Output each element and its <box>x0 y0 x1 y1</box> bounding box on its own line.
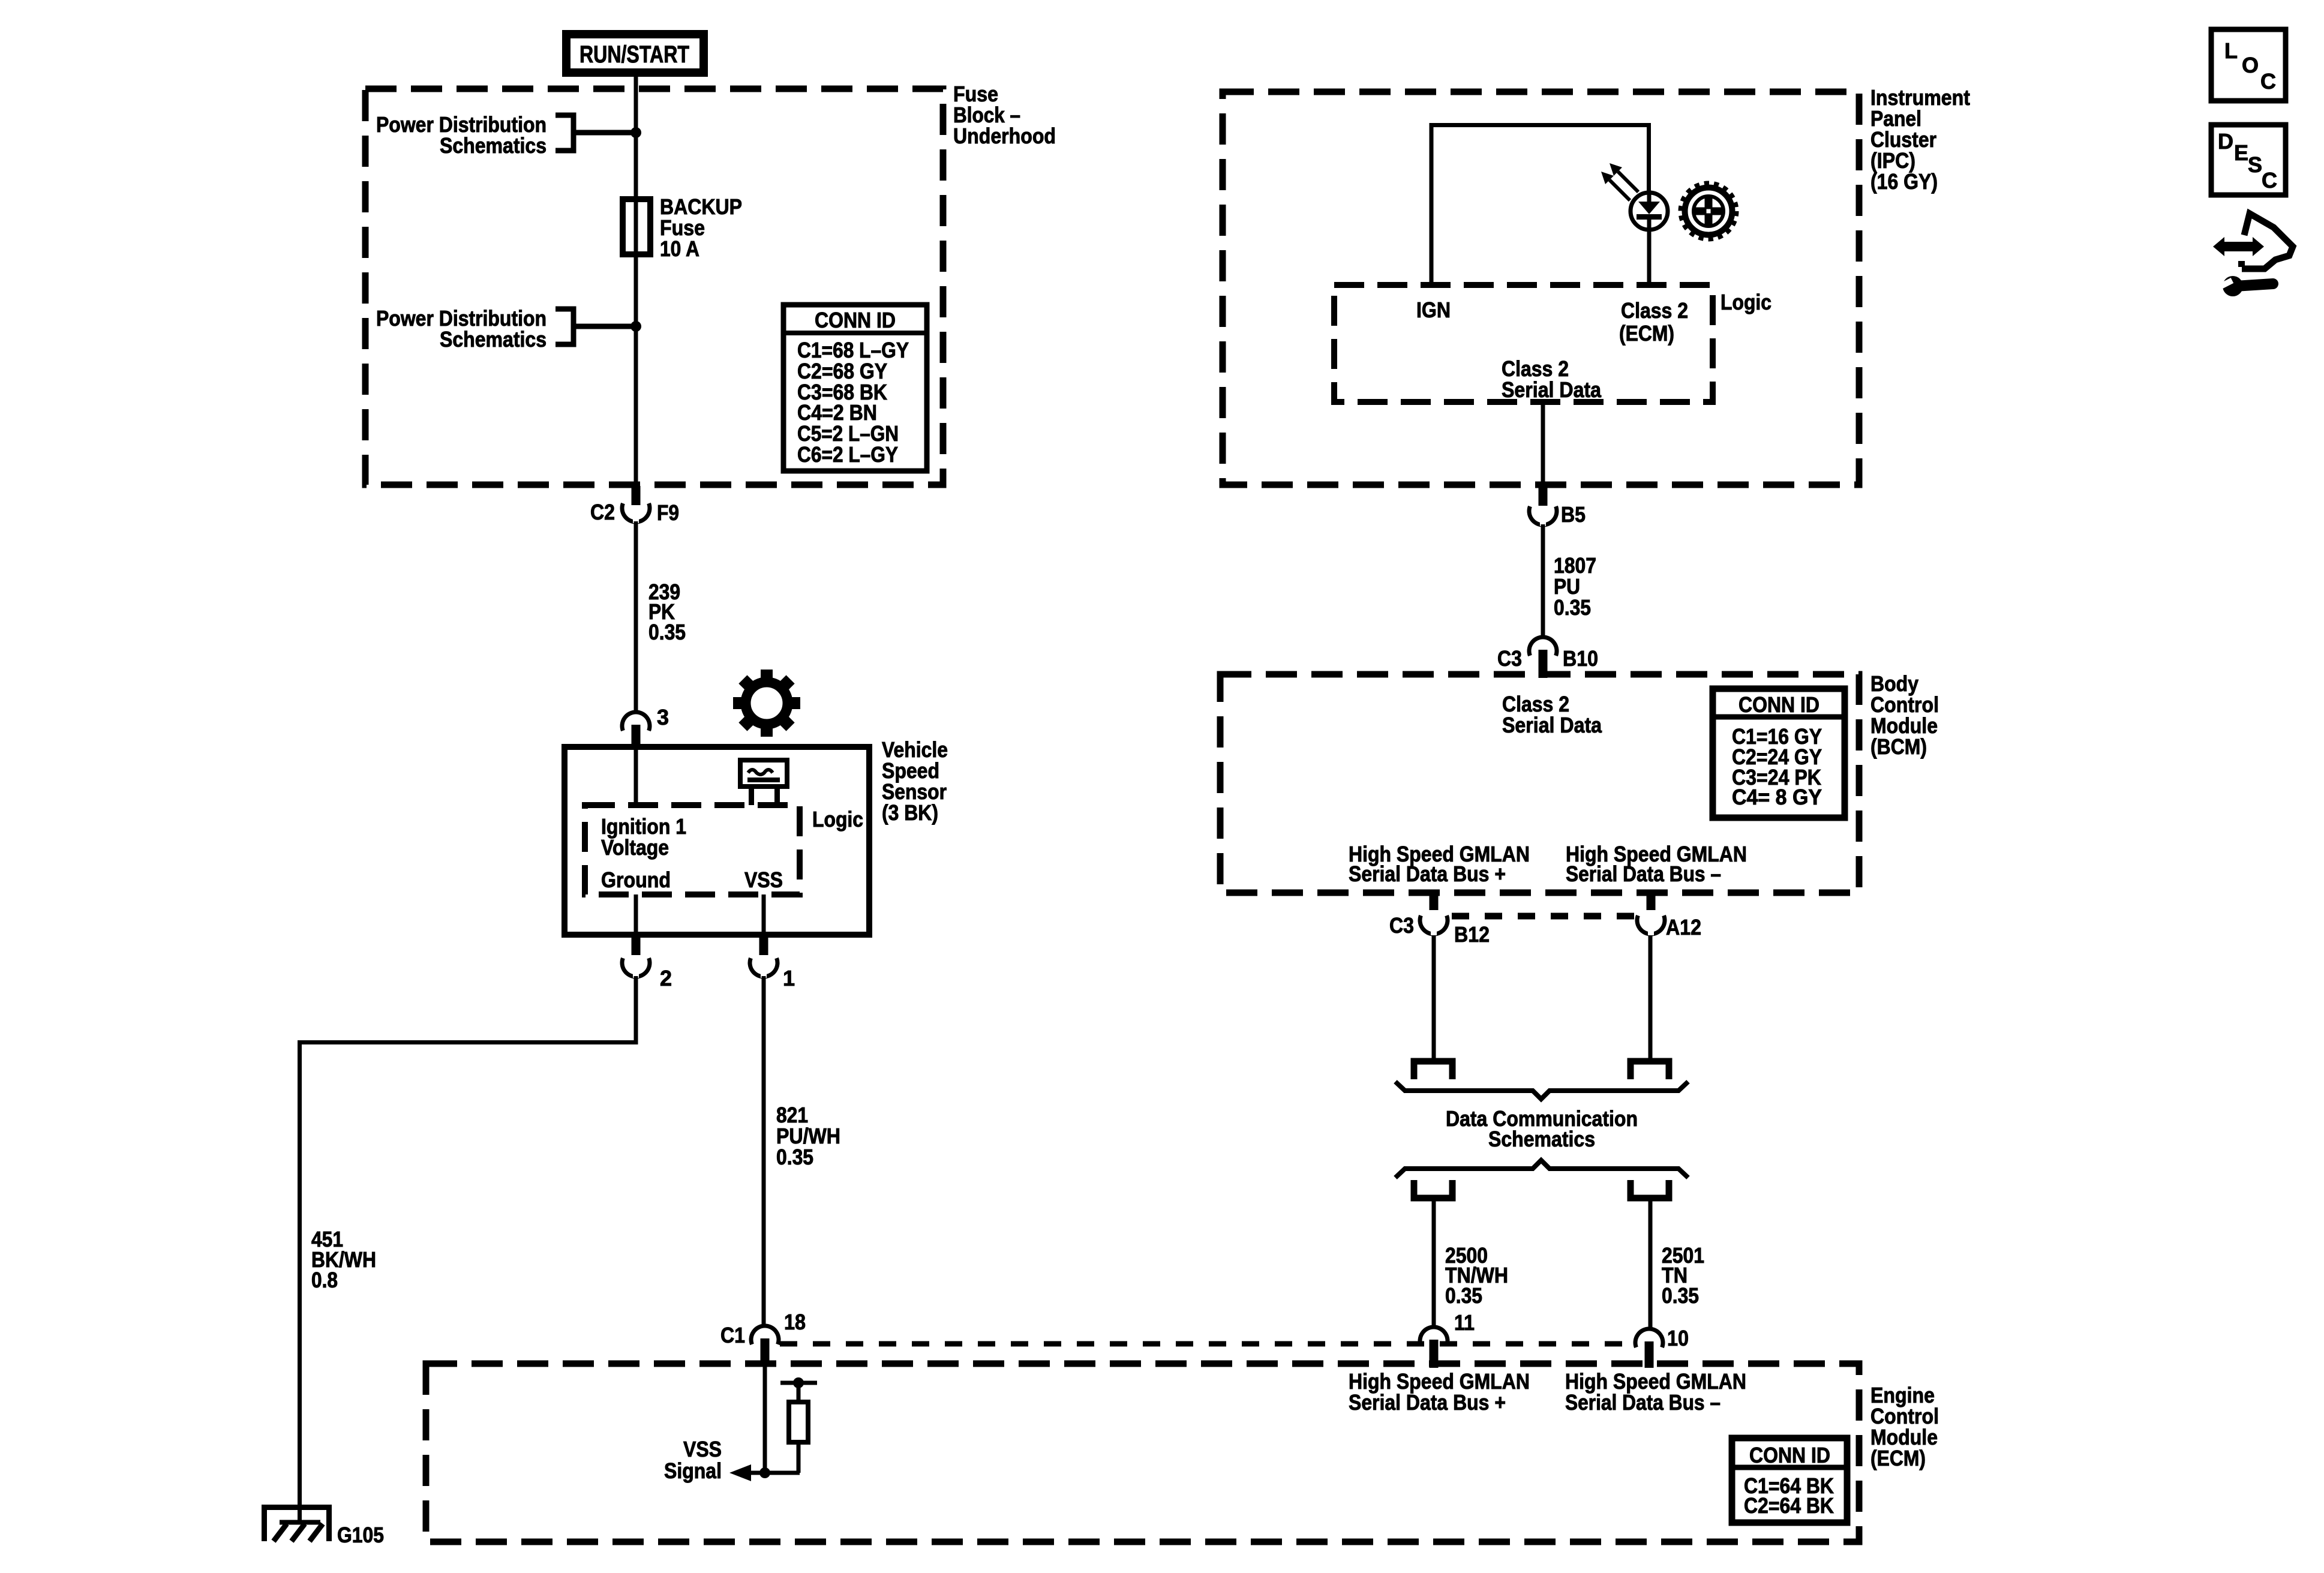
power feed box RUN/START <box>566 34 704 73</box>
harness dotted line C1 to ECM pins <box>780 1341 1635 1347</box>
brace lower <box>1395 1160 1688 1178</box>
junction node 1 <box>630 127 641 138</box>
label Logic (sensor) <box>812 807 863 831</box>
svg-text:C1: C1 <box>720 1323 745 1347</box>
body control module dashed box <box>1220 674 1859 893</box>
label High Speed GMLAN Serial Data Bus - (BCM) <box>1566 842 1747 886</box>
wire IGN loop top <box>1431 125 1649 286</box>
label IGN <box>1416 298 1451 322</box>
LED indicator <box>1631 193 1668 230</box>
pullup resistor <box>780 1377 817 1473</box>
terminal block bottom right <box>1631 1180 1669 1198</box>
label C2 <box>590 500 615 524</box>
IPC logic dashed box <box>1334 285 1713 402</box>
svg-text:B10: B10 <box>1563 646 1598 671</box>
wire VSS signal vertical <box>763 1362 767 1473</box>
label Fuse Block - Underhood <box>953 82 1056 148</box>
svg-text:S: S <box>2248 152 2262 177</box>
svg-text:Schematics: Schematics <box>440 327 547 352</box>
svg-text:0.35: 0.35 <box>1662 1283 1699 1308</box>
label Class 2 Serial Data (BCM) <box>1502 692 1602 737</box>
svg-text:C4= 8 GY: C4= 8 GY <box>1732 785 1822 809</box>
wire pin3 into sensor <box>634 749 638 805</box>
label BACKUP Fuse 10 A <box>660 194 742 261</box>
label B10 <box>1563 646 1598 671</box>
label 2500 TN/WH 0.35 lower <box>1445 1243 1508 1308</box>
svg-text:A12: A12 <box>1666 915 1701 939</box>
sensor logic dashed box <box>585 805 800 894</box>
label Engine Control Module (ECM) <box>1870 1383 1939 1470</box>
label Power Distribution Schematics 2 <box>376 306 547 352</box>
label VSS <box>744 867 783 892</box>
svg-text:VSS: VSS <box>683 1437 722 1461</box>
label Instrument Panel Cluster (IPC) (16 GY) <box>1870 85 1970 194</box>
VSS signal arrow <box>729 1464 800 1481</box>
connector C3 pin A12 <box>1637 891 1665 935</box>
label G105 <box>337 1523 384 1547</box>
wire class2 lower <box>1647 229 1652 285</box>
svg-text:1: 1 <box>783 966 795 990</box>
brace upper <box>1395 1082 1688 1099</box>
label Data Communication Schematics <box>1446 1106 1638 1151</box>
svg-text:Serial Data Bus +: Serial Data Bus + <box>1349 1390 1506 1415</box>
gear icon vehicle speed sensor <box>733 670 800 737</box>
wire 2500 upper <box>1432 934 1436 1058</box>
connector pin 2 <box>622 935 650 978</box>
connector pin 3 <box>622 712 650 749</box>
label Class 2 Serial Data (IPC) <box>1502 356 1602 402</box>
svg-text:C3: C3 <box>1497 646 1522 671</box>
label 2 <box>660 966 672 990</box>
svg-text:C3: C3 <box>1389 913 1414 938</box>
label B5 <box>1561 502 1586 527</box>
svg-text:E: E <box>2234 140 2248 165</box>
label C3 (B12) <box>1389 913 1414 938</box>
svg-text:CONN ID: CONN ID <box>1749 1443 1830 1467</box>
wire RUN/START to C2 <box>634 73 638 487</box>
svg-text:Underhood: Underhood <box>953 124 1056 148</box>
svg-text:(ECM): (ECM) <box>1619 321 1674 346</box>
dashed jumper between B12 and A12 <box>1452 913 1635 920</box>
svg-text:18: 18 <box>784 1310 806 1334</box>
off-page bracket Power Distribution 2 <box>556 309 631 344</box>
svg-text:11: 11 <box>1454 1310 1475 1335</box>
svg-text:Class 2: Class 2 <box>1621 298 1688 323</box>
label High Speed GMLAN Serial Data Bus + (BCM) <box>1349 842 1530 886</box>
connector C3 pin B12 <box>1420 891 1448 935</box>
svg-text:C: C <box>2262 168 2277 193</box>
svg-text:Signal: Signal <box>664 1458 722 1483</box>
connector pin 10 <box>1635 1329 1663 1368</box>
svg-text:(16 GY): (16 GY) <box>1870 169 1938 194</box>
label High Speed GMLAN Serial Data Bus + (ECM) <box>1349 1369 1530 1415</box>
label A12 <box>1666 915 1701 939</box>
label 10 <box>1667 1326 1689 1350</box>
svg-text:10 A: 10 A <box>660 236 699 261</box>
sensor element icon <box>740 760 787 805</box>
connector B5 <box>1529 486 1557 526</box>
svg-text:0.35: 0.35 <box>1445 1283 1482 1308</box>
svg-text:C2: C2 <box>590 500 615 524</box>
label Body Control Module (BCM) <box>1870 671 1939 759</box>
label Ground <box>601 867 671 892</box>
ground G105 symbol <box>265 1508 329 1542</box>
connector pin 1 <box>750 935 777 978</box>
wire 239 PK <box>634 521 638 713</box>
svg-text:D: D <box>2218 129 2233 154</box>
svg-text:0.8: 0.8 <box>311 1268 338 1292</box>
wire 821 PU/WH <box>762 976 766 1327</box>
wire 1807 PU <box>1541 524 1545 637</box>
svg-text:0.35: 0.35 <box>1554 595 1591 620</box>
label 3 <box>657 705 669 730</box>
label C1 <box>720 1323 745 1347</box>
svg-text:B5: B5 <box>1561 502 1586 527</box>
wire 451 BK/WH ground run <box>300 976 636 1522</box>
svg-text:0.35: 0.35 <box>776 1145 813 1169</box>
wire 2501 upper <box>1649 934 1653 1058</box>
svg-text:Serial Data: Serial Data <box>1502 377 1602 402</box>
connector C1 pin 18 <box>751 1326 779 1362</box>
DESC icon box <box>2211 125 2286 195</box>
terminal block top left <box>1414 1061 1452 1079</box>
svg-text:2: 2 <box>660 966 672 990</box>
svg-text:RUN/START: RUN/START <box>580 41 689 68</box>
label 18 <box>784 1310 806 1334</box>
junction node 2 <box>630 321 641 332</box>
svg-text:(BCM): (BCM) <box>1870 734 1927 759</box>
svg-text:Serial Data Bus +: Serial Data Bus + <box>1349 861 1506 886</box>
vehicle speed sensor box <box>565 747 869 935</box>
wire 2500 lower <box>1432 1198 1436 1327</box>
component locator dog icon <box>2213 214 2293 296</box>
svg-text:C6=2 L–GY: C6=2 L–GY <box>797 442 898 467</box>
svg-text:0.35: 0.35 <box>648 620 686 644</box>
svg-text:CONN ID: CONN ID <box>1739 692 1819 717</box>
CONN ID table fuse block <box>783 305 927 471</box>
svg-text:G105: G105 <box>337 1523 384 1547</box>
label Power Distribution Schematics 1 <box>376 112 547 158</box>
wire 2501 lower <box>1649 1198 1653 1329</box>
label ECM CONN ID table <box>1732 1438 1847 1523</box>
label C3 (B10) <box>1497 646 1522 671</box>
svg-text:(3 BK): (3 BK) <box>882 800 938 825</box>
svg-text:Schematics: Schematics <box>1488 1127 1595 1151</box>
connector pin 11 <box>1420 1327 1448 1368</box>
label 821 PU/WH 0.35 <box>776 1103 840 1169</box>
label 1 <box>783 966 795 990</box>
svg-text:C: C <box>2260 69 2276 94</box>
label 2501 TN 0.35 lower <box>1662 1243 1704 1308</box>
svg-text:Serial Data: Serial Data <box>1502 713 1602 737</box>
svg-text:Serial Data Bus –: Serial Data Bus – <box>1566 861 1721 886</box>
svg-text:IGN: IGN <box>1416 298 1451 322</box>
svg-text:Voltage: Voltage <box>601 835 669 860</box>
svg-text:C2=64 BK: C2=64 BK <box>1744 1493 1834 1518</box>
svg-text:VSS: VSS <box>744 867 783 892</box>
terminal block bottom left <box>1414 1180 1452 1198</box>
svg-text:Serial Data Bus –: Serial Data Bus – <box>1565 1390 1721 1415</box>
wire logic to B5 <box>1541 402 1545 487</box>
svg-text:Ground: Ground <box>601 867 671 892</box>
label B12 <box>1454 922 1490 947</box>
svg-text:Logic: Logic <box>1721 290 1771 314</box>
gear icon IPC <box>1681 184 1736 239</box>
svg-text:Schematics: Schematics <box>440 133 547 158</box>
fuse block - underhood dashed box <box>365 89 943 485</box>
engine control module dashed box <box>426 1364 1859 1542</box>
label High Speed GMLAN Serial Data Bus - (ECM) <box>1565 1369 1746 1415</box>
svg-text:L: L <box>2224 38 2238 63</box>
wire vss pin internal <box>762 894 766 935</box>
LOC icon box <box>2211 29 2286 101</box>
label 1807 PU 0.35 <box>1554 553 1596 620</box>
wire ground pin internal <box>634 894 638 935</box>
svg-text:O: O <box>2242 53 2259 77</box>
terminal block top right <box>1631 1061 1669 1079</box>
svg-text:3: 3 <box>657 705 669 730</box>
label 239 PK 0.35 <box>648 580 686 644</box>
label 451 BK/WH 0.8 <box>311 1227 376 1292</box>
connector C2 terminal F9 <box>622 486 650 523</box>
label Ignition 1 Voltage <box>601 814 686 860</box>
svg-text:10: 10 <box>1667 1326 1689 1350</box>
svg-text:F9: F9 <box>657 500 679 525</box>
svg-text:Logic: Logic <box>812 807 863 831</box>
svg-text:B12: B12 <box>1454 922 1490 947</box>
label Vehicle Speed Sensor (3 BK) <box>882 737 948 825</box>
svg-text:(ECM): (ECM) <box>1870 1446 1926 1470</box>
label 11 <box>1454 1310 1475 1335</box>
junction dot VSS signal <box>759 1467 770 1478</box>
fuse F9 BACKUP 10A <box>623 199 650 254</box>
svg-text:CONN ID: CONN ID <box>815 308 896 332</box>
off-page bracket Power Distribution 1 <box>556 115 631 151</box>
label F9 <box>657 500 679 525</box>
label Class 2 (ECM) <box>1619 298 1688 346</box>
label Logic (IPC) <box>1721 290 1771 314</box>
BCM CONN ID table <box>1713 689 1845 818</box>
connector C3 pin B10 <box>1529 637 1557 678</box>
LED arrows <box>1601 163 1638 200</box>
instrument panel cluster dashed box <box>1223 92 1859 485</box>
label VSS Signal <box>664 1437 722 1483</box>
